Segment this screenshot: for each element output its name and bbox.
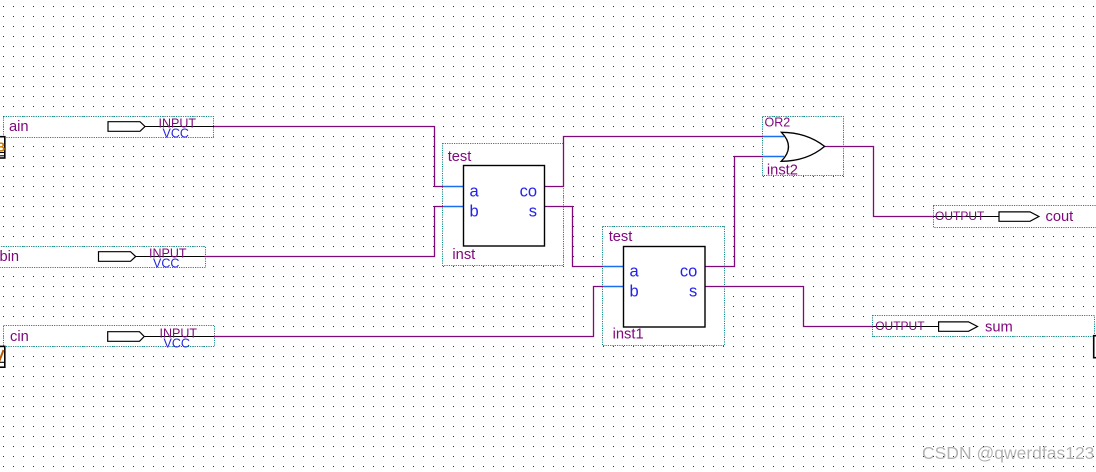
wire net inst1.co to OR2 input2 bbox=[705, 157, 763, 267]
clipped pin-assignment box left (cin) bbox=[0, 346, 5, 367]
svg-text:VCC: VCC bbox=[163, 126, 189, 140]
pin stub OR2 input1 bbox=[763, 136, 784, 138]
svg-text:ain: ain bbox=[9, 119, 29, 135]
pin stub inst1.b bbox=[604, 286, 624, 288]
selection box block inst1 bbox=[603, 227, 725, 346]
svg-text:sum: sum bbox=[985, 319, 1013, 335]
svg-text:cout: cout bbox=[1046, 209, 1074, 225]
selection box block inst bbox=[443, 144, 564, 266]
svg-text:a: a bbox=[630, 262, 640, 280]
svg-text:s: s bbox=[689, 282, 697, 300]
svg-text:VCC: VCC bbox=[153, 256, 179, 270]
selection box gate inst2 OR2 bbox=[763, 117, 844, 176]
svg-text:a: a bbox=[470, 182, 480, 200]
selection box output pin sum bbox=[873, 316, 1095, 337]
pin stub OR2 input2 bbox=[763, 156, 784, 158]
svg-text:bin: bin bbox=[0, 249, 19, 265]
selection box input pin bin bbox=[0, 247, 206, 268]
svg-text:co: co bbox=[680, 262, 697, 280]
wire net cin to inst1.b bbox=[214, 287, 604, 337]
svg-text:inst2: inst2 bbox=[767, 162, 798, 178]
clipped pin-assignment box left (ain) bbox=[0, 137, 5, 158]
svg-text:cin: cin bbox=[10, 329, 29, 345]
clipped pin-assignment box right (sum) bbox=[1094, 336, 1096, 358]
svg-text:co: co bbox=[520, 182, 537, 200]
svg-text:OUTPUT: OUTPUT bbox=[935, 209, 985, 223]
input pin symbol ain bbox=[108, 122, 214, 132]
input pin symbol cin bbox=[108, 332, 214, 342]
wire net inst1.s to sum bbox=[705, 287, 873, 327]
selection box input pin ain bbox=[4, 117, 214, 138]
svg-text:b: b bbox=[630, 282, 639, 300]
wire net OR2 output to cout bbox=[824, 147, 934, 217]
selection box input pin cin bbox=[4, 326, 215, 347]
svg-text:CSDN @qwerdfas123: CSDN @qwerdfas123 bbox=[922, 443, 1094, 463]
svg-text:inst: inst bbox=[452, 247, 475, 263]
wire net inst.s to inst1.a bbox=[545, 207, 604, 267]
svg-text:s: s bbox=[529, 202, 537, 220]
svg-text:b: b bbox=[470, 202, 479, 220]
selection box output pin cout bbox=[934, 206, 1096, 228]
svg-text:VCC: VCC bbox=[164, 336, 190, 350]
output pin symbol cout bbox=[934, 212, 1039, 221]
pin stub inst1.a bbox=[604, 266, 624, 268]
wire net ain to inst.a bbox=[214, 127, 444, 187]
pin stub inst.a bbox=[444, 186, 464, 188]
wire net bin to inst.b bbox=[205, 207, 444, 257]
svg-text:test: test bbox=[448, 149, 472, 165]
pin stub inst.b bbox=[444, 206, 464, 208]
svg-text:test: test bbox=[609, 229, 633, 245]
svg-text:OR2: OR2 bbox=[765, 116, 791, 130]
input pin symbol bin bbox=[99, 252, 205, 262]
block symbol inst (test) bbox=[464, 166, 545, 247]
or-gate OR2 inst2 bbox=[781, 132, 824, 161]
block symbol inst1 (test) bbox=[624, 247, 706, 328]
wire net inst.co to OR2 input1 bbox=[545, 137, 764, 187]
output pin symbol sum bbox=[873, 322, 978, 331]
svg-text:OUTPUT: OUTPUT bbox=[875, 319, 925, 333]
svg-text:inst1: inst1 bbox=[613, 326, 644, 342]
